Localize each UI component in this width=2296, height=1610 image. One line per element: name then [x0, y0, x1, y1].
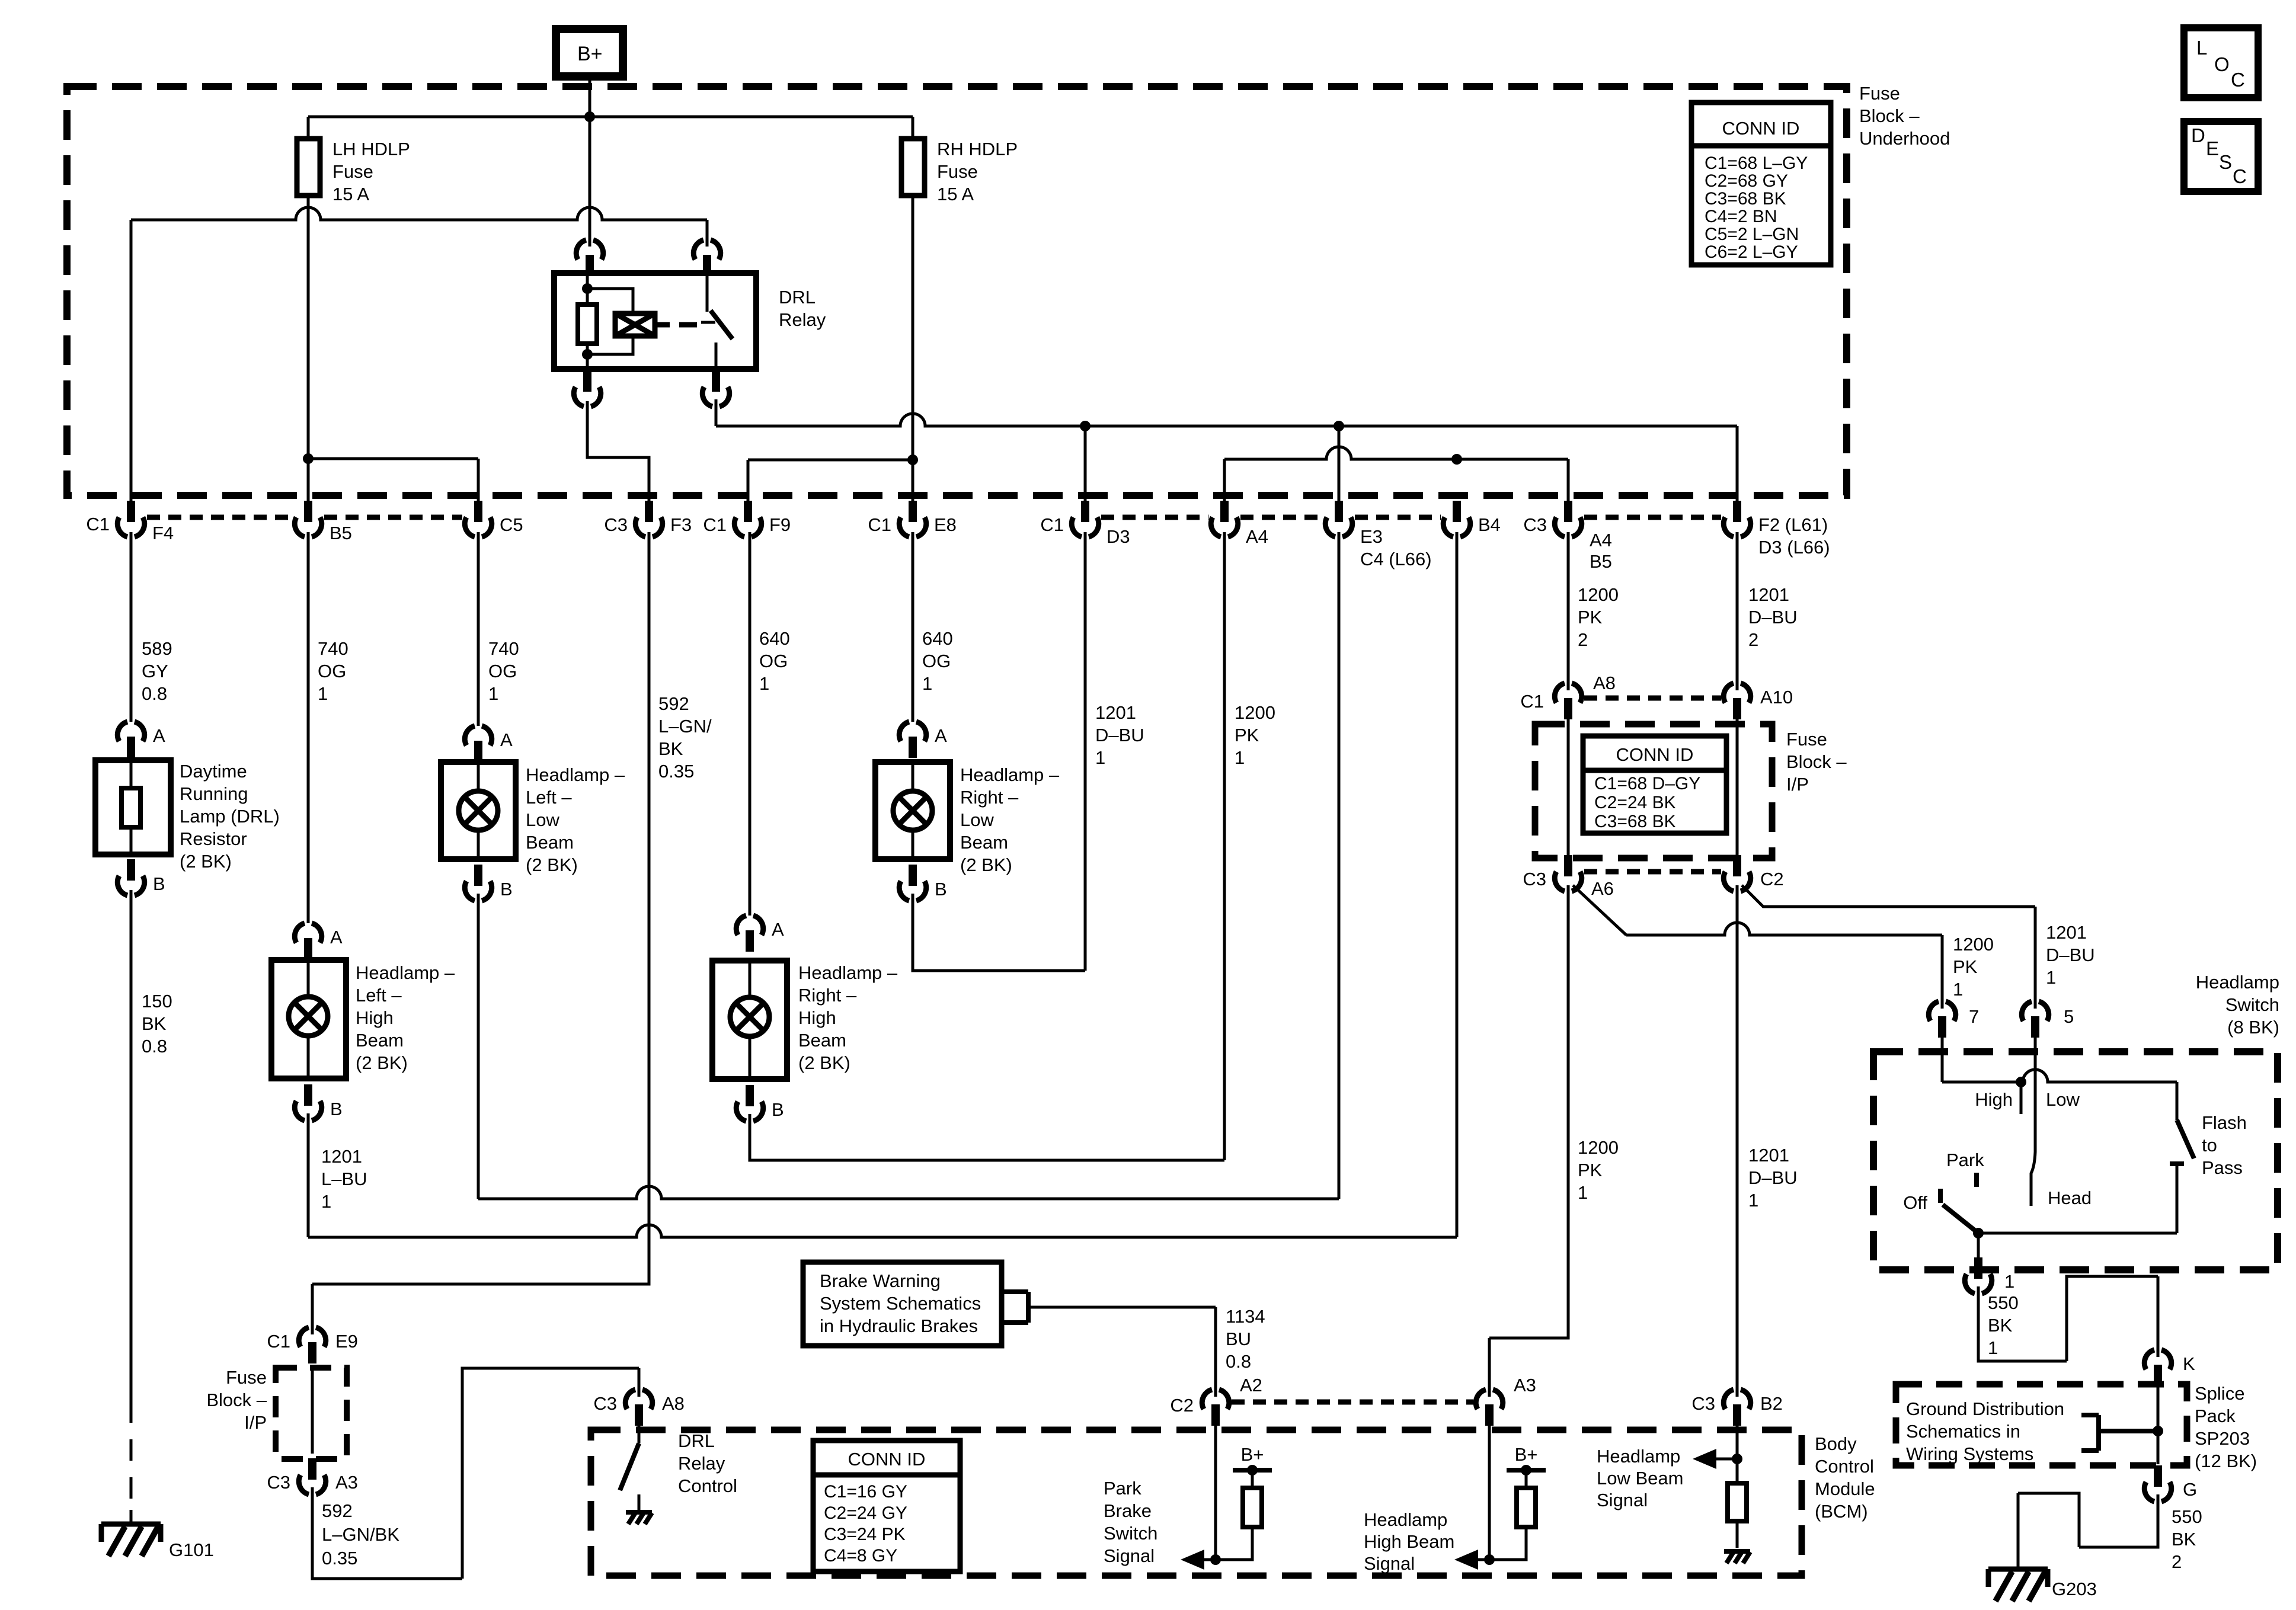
- svg-text:D–BU: D–BU: [1095, 725, 1144, 745]
- wire RH high beam to A4 line: [750, 1114, 1224, 1160]
- svg-text:G203: G203: [2052, 1579, 2097, 1599]
- node E3 tap: [1334, 421, 1344, 431]
- wire relay output to F2: [716, 414, 1737, 426]
- svg-text:Low: Low: [960, 809, 994, 830]
- svg-text:B: B: [153, 873, 165, 894]
- svg-text:C1=68 L–GY: C1=68 L–GY: [1705, 153, 1808, 173]
- node D3 tap: [1080, 421, 1091, 431]
- node relay coil bottom: [582, 349, 593, 360]
- svg-text:1: 1: [1095, 747, 1105, 768]
- svg-text:Signal: Signal: [1104, 1545, 1155, 1566]
- svg-text:PK: PK: [1578, 607, 1603, 628]
- wire D3 riser: [1084, 532, 1087, 971]
- svg-text:0.8: 0.8: [142, 1036, 167, 1057]
- svg-text:C1: C1: [703, 514, 727, 535]
- svg-text:Module: Module: [1815, 1478, 1875, 1499]
- svg-text:(2 BK): (2 BK): [526, 854, 578, 875]
- svg-text:RH HDLP: RH HDLP: [937, 139, 1018, 159]
- svg-text:Resistor: Resistor: [180, 828, 247, 849]
- ground DRL relay control: [626, 1510, 652, 1515]
- svg-text:B4: B4: [1478, 514, 1501, 535]
- svg-text:Switch: Switch: [1104, 1523, 1157, 1544]
- svg-text:Brake Warning: Brake Warning: [820, 1270, 941, 1291]
- svg-text:Park: Park: [1104, 1478, 1141, 1499]
- connector A2 BCM: [1202, 1390, 1229, 1409]
- pin relay coil top (86): [576, 240, 603, 260]
- svg-text:C3=68 BK: C3=68 BK: [1594, 812, 1676, 831]
- svg-text:B: B: [330, 1099, 343, 1119]
- svg-text:C3: C3: [1691, 1393, 1715, 1414]
- svg-text:F2 (L61): F2 (L61): [1758, 514, 1828, 535]
- bulb right high beam: [749, 961, 752, 1079]
- svg-text:(8 BK): (8 BK): [2227, 1017, 2279, 1038]
- wire bus to LH fuse: [307, 117, 310, 139]
- svg-text:Beam: Beam: [526, 832, 574, 853]
- node E8 F9 junction: [907, 454, 918, 465]
- svg-text:A10: A10: [1760, 687, 1793, 708]
- DESC reference box: [2184, 121, 2258, 191]
- svg-text:C1: C1: [868, 514, 891, 535]
- svg-text:Beam: Beam: [960, 832, 1008, 853]
- svg-text:L: L: [2196, 37, 2207, 59]
- dotted line A8-A10: [1584, 696, 1721, 701]
- connector A4 at fuse block row: [1211, 517, 1237, 537]
- wire F4 drop: [130, 220, 133, 501]
- svg-text:B+: B+: [577, 43, 603, 65]
- svg-text:1200: 1200: [1578, 584, 1619, 605]
- dotted connector line F4-C5: [147, 515, 462, 520]
- svg-text:740: 740: [318, 638, 348, 659]
- wire A2 signal: [1214, 1426, 1217, 1560]
- svg-text:B: B: [772, 1099, 784, 1120]
- wire splice K to G: [2157, 1386, 2160, 1464]
- connector A8 DRL relay control: [625, 1390, 652, 1409]
- svg-text:PK: PK: [1578, 1160, 1603, 1180]
- node relay coil top: [582, 283, 593, 294]
- svg-text:Control: Control: [678, 1475, 737, 1496]
- svg-text:1134: 1134: [1226, 1306, 1265, 1327]
- connector E3 at fuse block row: [1325, 517, 1352, 537]
- connector A6: [1555, 872, 1581, 891]
- wire pin1 to splice K: [1978, 1276, 2158, 1361]
- svg-text:OG: OG: [318, 661, 346, 681]
- wire pin7 into switch: [1941, 1038, 1944, 1082]
- svg-text:BK: BK: [1988, 1315, 2013, 1336]
- svg-text:Beam: Beam: [356, 1030, 404, 1051]
- svg-text:C: C: [2231, 69, 2245, 91]
- svg-text:Fuse: Fuse: [1859, 83, 1900, 104]
- svg-text:OG: OG: [922, 651, 951, 671]
- connector pin 5 headlamp switch: [2022, 1001, 2048, 1021]
- pin B headlamp right low: [899, 881, 926, 901]
- svg-text:Splice: Splice: [2195, 1383, 2244, 1404]
- Brake Warning System box: [803, 1262, 1002, 1346]
- svg-text:592: 592: [658, 693, 689, 714]
- connector pin 1 headlamp switch: [1965, 1274, 1991, 1294]
- svg-text:LH HDLP: LH HDLP: [332, 139, 410, 159]
- svg-text:Fuse: Fuse: [1786, 729, 1827, 750]
- svg-text:Headlamp –: Headlamp –: [526, 764, 625, 785]
- svg-text:Running: Running: [180, 783, 248, 804]
- wire DRL resistor to G101 (150 BK): [130, 890, 133, 1401]
- wire F4 feed horizontal: [131, 207, 707, 220]
- wire B+ to relay coil pin: [589, 117, 591, 247]
- relay DRL box: [554, 273, 756, 369]
- svg-text:Schematics in: Schematics in: [1906, 1421, 2020, 1442]
- wire C2 to headlamp switch pin 5: [1742, 885, 2035, 1009]
- svg-text:C3=24 PK: C3=24 PK: [824, 1525, 906, 1544]
- svg-text:592: 592: [322, 1500, 353, 1521]
- svg-text:C2: C2: [1170, 1395, 1194, 1416]
- svg-text:DRL: DRL: [779, 287, 816, 308]
- ground BCM internal: [1724, 1549, 1750, 1554]
- svg-text:0.8: 0.8: [1226, 1351, 1251, 1372]
- svg-text:GY: GY: [142, 661, 168, 681]
- svg-text:SP203: SP203: [2195, 1428, 2250, 1449]
- connector B4 at fuse block row: [1443, 517, 1470, 537]
- splice pack dashed box: [1896, 1384, 2187, 1465]
- svg-text:C3: C3: [1523, 869, 1546, 889]
- svg-text:C2=68 GY: C2=68 GY: [1705, 171, 1788, 191]
- wire RH low beam to D3: [913, 894, 1085, 971]
- wire E9 to A3 inside fuse block: [311, 1369, 314, 1454]
- svg-text:A: A: [153, 725, 165, 746]
- svg-text:B2: B2: [1760, 1393, 1783, 1414]
- dotted line A2-A3: [1232, 1400, 1473, 1405]
- connector K splice pack: [2144, 1350, 2171, 1369]
- svg-text:Headlamp: Headlamp: [1597, 1446, 1680, 1467]
- svg-text:C6=2 L–GY: C6=2 L–GY: [1705, 242, 1798, 262]
- svg-text:C: C: [2233, 165, 2247, 187]
- wire F9 to RH high beam: [749, 532, 752, 916]
- bulb right low beam: [912, 762, 914, 859]
- wire low/head pole: [2031, 1082, 2035, 1206]
- node A2 signal junction: [1210, 1554, 1221, 1565]
- wire LH fuse down to B5: [307, 196, 310, 501]
- node B+ bus junction: [584, 111, 595, 122]
- svg-text:2: 2: [1578, 629, 1588, 650]
- high contact stub: [2020, 1082, 2023, 1114]
- svg-text:(2 BK): (2 BK): [356, 1052, 408, 1073]
- svg-text:(12 BK): (12 BK): [2195, 1451, 2257, 1471]
- svg-text:A: A: [935, 725, 947, 746]
- Fuse Block I/P small dashed box: [276, 1368, 347, 1459]
- node A3 signal junction: [1484, 1554, 1495, 1565]
- svg-text:1: 1: [2004, 1271, 2014, 1292]
- wire A6 down to A3 BCM (1200 PK 1): [1489, 885, 1568, 1397]
- wire F9 link: [748, 460, 913, 501]
- connector pin 7 headlamp switch: [1929, 1001, 1955, 1021]
- DRL relay control switch: [638, 1426, 641, 1443]
- pin relay coil bottom (85): [574, 387, 600, 406]
- wire RH fuse down to E8: [912, 196, 914, 501]
- wire B2 signal: [1736, 1426, 1739, 1459]
- svg-text:to: to: [2202, 1135, 2217, 1156]
- svg-text:High Beam: High Beam: [1364, 1531, 1454, 1552]
- pin relay switch bottom (87): [702, 387, 729, 406]
- svg-text:Signal: Signal: [1597, 1490, 1648, 1510]
- wire F2 to A10 (1201 D-BU 2): [1736, 532, 1739, 690]
- wire top bus: [308, 116, 913, 119]
- svg-text:C4=8 GY: C4=8 GY: [824, 1546, 897, 1566]
- svg-text:1201: 1201: [1748, 1145, 1789, 1166]
- svg-text:Headlamp: Headlamp: [2196, 972, 2279, 993]
- bracket brake warning: [1002, 1292, 1028, 1323]
- arrow headlamp low beam signal: [1712, 1458, 1737, 1461]
- svg-text:C1: C1: [86, 514, 110, 534]
- svg-text:Right –: Right –: [960, 787, 1019, 808]
- svg-text:Block –: Block –: [206, 1390, 267, 1410]
- svg-text:C3=68 BK: C3=68 BK: [1705, 189, 1786, 209]
- wire relay switch pin drop: [706, 220, 709, 247]
- connector A3 BCM: [1476, 1390, 1502, 1409]
- svg-text:1: 1: [1953, 979, 1963, 1000]
- wire branch to C5: [308, 459, 478, 501]
- svg-text:Relay: Relay: [678, 1453, 725, 1474]
- svg-text:C2=24 GY: C2=24 GY: [824, 1503, 907, 1523]
- svg-text:B: B: [935, 879, 947, 900]
- svg-text:Block –: Block –: [1786, 751, 1847, 772]
- svg-text:1: 1: [321, 1191, 331, 1212]
- svg-text:Low Beam: Low Beam: [1597, 1468, 1683, 1489]
- svg-text:640: 640: [922, 628, 953, 649]
- svg-text:0.8: 0.8: [142, 683, 167, 704]
- svg-text:1: 1: [488, 683, 498, 704]
- svg-text:550: 550: [2172, 1506, 2202, 1527]
- connector F4 at fuse block row: [117, 517, 144, 537]
- svg-text:D: D: [2191, 124, 2205, 146]
- svg-text:Flash: Flash: [2202, 1112, 2247, 1133]
- svg-text:BK: BK: [2172, 1529, 2196, 1550]
- svg-text:L–GN/: L–GN/: [658, 716, 712, 737]
- svg-text:Headlamp –: Headlamp –: [960, 764, 1060, 785]
- connector A8 fuse block IP: [1555, 683, 1581, 703]
- svg-text:589: 589: [142, 638, 172, 659]
- connector F9 at fuse block row: [734, 517, 761, 537]
- svg-text:C1: C1: [1040, 514, 1064, 535]
- svg-text:(2 BK): (2 BK): [960, 854, 1012, 875]
- svg-text:B+: B+: [1515, 1444, 1538, 1465]
- wire LH high beam to B4 line: [307, 1113, 310, 1237]
- wire common to pin1: [1977, 1233, 1980, 1257]
- arrow headlamp high beam signal: [1473, 1558, 1489, 1561]
- connector B5 at fuse block row: [295, 517, 321, 537]
- svg-text:Off: Off: [1903, 1192, 1927, 1213]
- svg-text:(BCM): (BCM): [1815, 1501, 1868, 1522]
- svg-text:(2 BK): (2 BK): [798, 1052, 850, 1073]
- svg-text:B5: B5: [1590, 551, 1612, 572]
- svg-text:A: A: [330, 927, 343, 948]
- svg-text:Lamp (DRL): Lamp (DRL): [180, 806, 280, 827]
- svg-text:1200: 1200: [1235, 702, 1275, 723]
- svg-text:C2=24 BK: C2=24 BK: [1594, 793, 1676, 812]
- lamp headlamp left low beam box: [441, 762, 516, 859]
- svg-text:System Schematics: System Schematics: [820, 1293, 981, 1314]
- svg-text:1: 1: [318, 683, 328, 704]
- svg-text:A: A: [772, 919, 784, 940]
- connector E9: [299, 1327, 325, 1347]
- connector F2 at fuse block row: [1723, 517, 1750, 537]
- pin A DRL resistor: [117, 722, 144, 741]
- wire B+ to bus: [589, 76, 591, 117]
- svg-text:A8: A8: [1593, 673, 1616, 693]
- svg-text:CONN ID: CONN ID: [1616, 744, 1694, 765]
- lamp headlamp right high beam box: [712, 961, 787, 1079]
- svg-text:Headlamp –: Headlamp –: [798, 962, 898, 983]
- resistor DRL element: [130, 760, 133, 854]
- svg-text:PK: PK: [1953, 956, 1978, 977]
- svg-text:Left –: Left –: [526, 787, 572, 808]
- pin B headlamp right high: [736, 1102, 763, 1121]
- wire E8 to RH low beam: [912, 532, 914, 722]
- ground G101: [101, 1524, 161, 1542]
- pulldown resistor B2: [1736, 1459, 1739, 1483]
- pin B DRL resistor: [117, 876, 144, 895]
- svg-text:A3: A3: [1514, 1375, 1536, 1395]
- pin B headlamp left high: [295, 1101, 321, 1121]
- svg-text:15 A: 15 A: [937, 184, 974, 204]
- wire E3 riser: [1338, 532, 1341, 1199]
- svg-text:1: 1: [2046, 967, 2056, 988]
- CONN ID table (BCM): [813, 1441, 960, 1571]
- svg-text:1: 1: [922, 673, 932, 694]
- DRL resistor box: [95, 760, 171, 854]
- pin relay switch top (30): [693, 240, 720, 260]
- svg-text:Headlamp –: Headlamp –: [356, 962, 455, 983]
- wire switch top rail: [1942, 1070, 2177, 1082]
- wire brake warning to A2: [1028, 1307, 1216, 1397]
- pin B headlamp left low: [465, 881, 491, 901]
- svg-text:in Hydraulic Brakes: in Hydraulic Brakes: [820, 1315, 978, 1336]
- svg-text:550: 550: [1988, 1292, 2019, 1313]
- svg-text:BU: BU: [1226, 1329, 1251, 1349]
- svg-text:5: 5: [2064, 1006, 2074, 1027]
- relay switch contact stub: [701, 273, 715, 322]
- CONN ID table (IP): [1583, 736, 1726, 833]
- svg-text:I/P: I/P: [244, 1412, 267, 1433]
- svg-text:Beam: Beam: [798, 1030, 846, 1051]
- svg-text:C3: C3: [267, 1472, 290, 1493]
- wire A4-B4-C3 link: [1224, 447, 1568, 459]
- wire relay coil return to F3: [587, 401, 649, 501]
- svg-text:0.35: 0.35: [322, 1548, 357, 1569]
- wire B4 riser: [1456, 532, 1459, 1237]
- svg-text:D3: D3: [1107, 526, 1130, 547]
- svg-text:CONN ID: CONN ID: [848, 1449, 926, 1470]
- svg-text:C4 (L66): C4 (L66): [1360, 549, 1432, 569]
- svg-text:O: O: [2214, 53, 2230, 75]
- svg-text:2: 2: [1748, 629, 1758, 650]
- svg-text:2: 2: [2172, 1551, 2182, 1572]
- bracket ground distribution: [2081, 1415, 2158, 1451]
- bulb left low beam: [477, 762, 480, 859]
- svg-text:Head: Head: [2048, 1188, 2092, 1208]
- svg-text:High: High: [798, 1007, 836, 1028]
- svg-text:Low: Low: [526, 809, 559, 830]
- relay switch blade: [711, 311, 733, 339]
- svg-text:High: High: [1975, 1089, 2013, 1110]
- svg-text:C3: C3: [604, 514, 628, 535]
- bulb left high beam: [307, 960, 310, 1078]
- power feed B+ terminal box: [556, 29, 623, 76]
- pin A headlamp left low: [465, 726, 491, 745]
- svg-text:1200: 1200: [1578, 1137, 1619, 1158]
- svg-text:BK: BK: [142, 1013, 167, 1034]
- dotted connector line D3-B4: [1101, 515, 1441, 520]
- svg-text:Underhood: Underhood: [1859, 128, 1950, 149]
- svg-text:C1=16 GY: C1=16 GY: [824, 1482, 907, 1502]
- node splice SP203: [2153, 1426, 2163, 1436]
- Fuse Block IP dashed box: [1535, 724, 1772, 858]
- svg-text:High: High: [356, 1007, 394, 1028]
- wire pin5 into switch: [2034, 1038, 2037, 1082]
- wire relay coil internal: [586, 276, 589, 369]
- svg-text:Signal: Signal: [1364, 1553, 1415, 1574]
- wire D3 drop: [1084, 426, 1087, 501]
- svg-text:1: 1: [759, 673, 769, 694]
- svg-text:1201: 1201: [2046, 922, 2087, 943]
- connector C5 at fuse block row: [465, 517, 491, 537]
- wire bus to RH fuse: [912, 117, 914, 139]
- lamp headlamp right low beam box: [875, 762, 950, 859]
- connector F3 at fuse block row: [635, 517, 662, 537]
- svg-text:740: 740: [488, 638, 519, 659]
- svg-text:B: B: [500, 879, 513, 900]
- svg-text:Control: Control: [1815, 1456, 1874, 1477]
- svg-text:Pack: Pack: [2195, 1406, 2236, 1426]
- headlamp switch dashed box: [1873, 1052, 2278, 1270]
- svg-text:I/P: I/P: [1786, 774, 1809, 795]
- svg-text:C1=68 D–GY: C1=68 D–GY: [1594, 774, 1700, 793]
- svg-text:C1: C1: [1520, 691, 1544, 712]
- svg-text:C3: C3: [1523, 514, 1547, 535]
- fuse RH HDLP 15A: [901, 139, 925, 196]
- resistor relay internal: [578, 305, 597, 344]
- connector E8 at fuse block row: [899, 517, 926, 537]
- svg-text:Headlamp: Headlamp: [1364, 1509, 1447, 1530]
- connector A3 (fuse block IP): [299, 1475, 325, 1494]
- svg-text:BK: BK: [658, 738, 683, 759]
- flash to pass branch: [2176, 1082, 2179, 1120]
- relay coil symbol: [615, 313, 655, 336]
- wire C2 down to B2 BCM (1201 D-BU 1): [1736, 885, 1739, 1397]
- svg-text:1: 1: [1988, 1337, 1998, 1358]
- pin A headlamp left high: [295, 923, 321, 943]
- svg-text:C2: C2: [1760, 869, 1784, 889]
- wire A10 to C2 inside IP: [1736, 719, 1739, 855]
- relay actuator dashed link: [655, 322, 670, 328]
- svg-text:B5: B5: [330, 523, 352, 543]
- svg-text:Wiring Systems: Wiring Systems: [1906, 1443, 2033, 1464]
- svg-text:G101: G101: [169, 1539, 214, 1560]
- svg-text:Body: Body: [1815, 1433, 1857, 1454]
- svg-text:Relay: Relay: [779, 309, 826, 330]
- park contact stub: [1974, 1173, 1979, 1187]
- svg-text:F9: F9: [769, 514, 791, 535]
- svg-text:15 A: 15 A: [332, 184, 369, 204]
- svg-text:150: 150: [142, 991, 172, 1012]
- svg-text:Fuse: Fuse: [937, 161, 978, 182]
- svg-text:C1: C1: [267, 1331, 290, 1352]
- wire LH low beam to E3 line: [477, 894, 480, 1199]
- svg-text:A8: A8: [662, 1393, 685, 1414]
- svg-text:1200: 1200: [1953, 934, 1994, 955]
- svg-text:L–BU: L–BU: [321, 1169, 367, 1189]
- svg-text:S: S: [2219, 151, 2232, 173]
- svg-text:D3 (L66): D3 (L66): [1758, 537, 1830, 558]
- svg-text:Brake: Brake: [1104, 1500, 1152, 1521]
- svg-text:Low: Low: [2046, 1089, 2080, 1110]
